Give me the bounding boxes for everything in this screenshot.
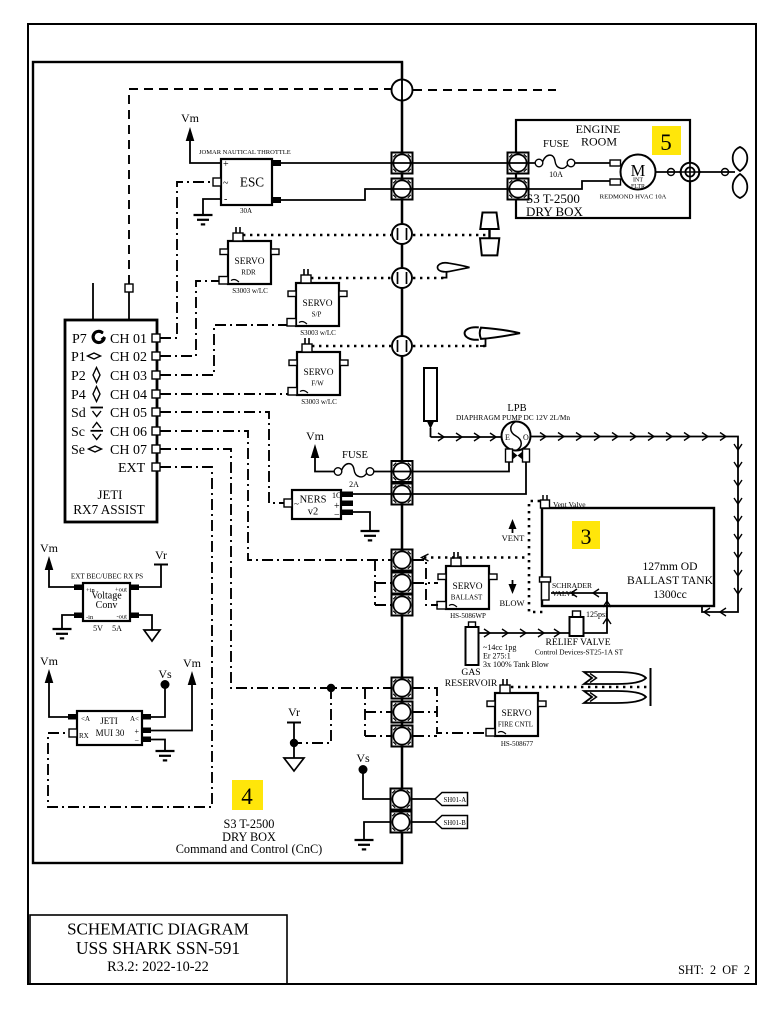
svg-text:-out: -out	[117, 614, 128, 621]
RX7 channel row CH05	[71, 406, 160, 421]
svg-text:+: +	[223, 159, 229, 170]
svg-text:−: −	[334, 510, 340, 521]
callout 3	[572, 521, 600, 549]
svg-text:2A: 2A	[349, 480, 359, 489]
wire ESC + output to motor fuse	[281, 162, 535, 164]
svg-text:JOMAR NAUTICAL THROTTLE: JOMAR NAUTICAL THROTTLE	[199, 149, 291, 156]
relief valve	[570, 610, 609, 636]
fairwater plane control surface symbol	[465, 327, 520, 346]
Vm power flag at voltage converter	[40, 541, 74, 587]
MUI - ground	[151, 740, 175, 761]
voltage converter output ground (chassis)	[139, 615, 160, 641]
svg-text:MUI 30: MUI 30	[96, 728, 125, 738]
svg-text:SCHEMATIC DIAGRAM: SCHEMATIC DIAGRAM	[67, 920, 249, 939]
vent valve	[541, 495, 587, 509]
svg-text:3: 3	[581, 524, 592, 549]
svg-text:NERS: NERS	[300, 495, 327, 506]
shaft gland (hull penetration)	[679, 161, 701, 183]
svg-text:CH 04: CH 04	[110, 388, 147, 403]
svg-text:JETI: JETI	[98, 488, 123, 502]
svg-text:30A: 30A	[240, 207, 252, 215]
svg-text:3x 100% Tank Blow: 3x 100% Tank Blow	[483, 660, 549, 669]
voltage converter rating label	[93, 624, 122, 633]
svg-text:E: E	[505, 433, 510, 442]
svg-text:127mm OD: 127mm OD	[642, 560, 697, 573]
svg-text:5: 5	[660, 130, 672, 155]
svg-text:CH 06: CH 06	[110, 425, 147, 440]
svg-text:FUSE: FUSE	[543, 139, 569, 150]
ESC ground	[194, 199, 222, 224]
wire CH07 to fire control connectors	[160, 449, 391, 688]
rudder control surface symbol	[480, 213, 499, 256]
svg-text:5A: 5A	[112, 624, 122, 633]
svg-text:Se: Se	[71, 443, 85, 458]
Vm power flag at MUI A	[40, 654, 68, 717]
svg-text:CH 03: CH 03	[110, 369, 147, 384]
net flag SH01-B	[412, 816, 468, 829]
wire CH02 to servo RDR	[160, 281, 219, 356]
svg-text:S3 T-2500: S3 T-2500	[224, 817, 275, 831]
ballast connector strap wires	[375, 560, 438, 605]
Vm power flag at ESC	[181, 111, 221, 163]
VENT flow label	[502, 519, 525, 543]
svg-text:+in: +in	[86, 587, 95, 594]
svg-text:S/P: S/P	[312, 311, 322, 319]
svg-text:P1: P1	[71, 350, 86, 365]
wire CH04 to servo F/W	[160, 393, 288, 395]
svg-text:DRY BOX: DRY BOX	[526, 204, 584, 219]
svg-text:−: −	[134, 736, 139, 745]
svg-text:RELIEF VALVE: RELIEF VALVE	[545, 637, 610, 648]
svg-text:BALLAST TANK: BALLAST TANK	[627, 574, 714, 587]
Vm power flag at pump fuse	[306, 429, 334, 472]
svg-text:Vs: Vs	[356, 751, 370, 765]
gas reservoir labels	[445, 643, 549, 689]
svg-text:CH 07: CH 07	[110, 443, 147, 458]
hull centre bulkhead line (right wall of CnC box)	[401, 62, 403, 863]
BLOW flow label	[499, 580, 524, 608]
svg-text:Vm: Vm	[40, 654, 59, 668]
svg-text:~: ~	[223, 178, 229, 189]
svg-text:10A: 10A	[549, 170, 563, 179]
svg-text:v2: v2	[308, 507, 319, 518]
fairwater plane linkage feedthrough circle	[392, 336, 412, 356]
svg-text:Command and Control (CnC): Command and Control (CnC)	[176, 842, 323, 856]
svg-text:-: -	[224, 194, 227, 205]
svg-text:SHT: 2 OF 2: SHT: 2 OF 2	[678, 963, 750, 977]
svg-text:F/W: F/W	[311, 380, 324, 388]
svg-text:ESC: ESC	[240, 175, 264, 190]
svg-text:RX7 ASSIST: RX7 ASSIST	[73, 502, 144, 517]
svg-text:O: O	[523, 433, 529, 442]
svg-text:FUSE: FUSE	[342, 450, 368, 461]
svg-text:S3003 w/LC: S3003 w/LC	[301, 398, 337, 406]
relief valve labels	[535, 637, 624, 657]
Vr output flag at voltage converter	[139, 548, 168, 587]
NERS v2 unit	[284, 490, 353, 521]
engine room dry box outline	[516, 120, 690, 218]
svg-text:Vent Valve: Vent Valve	[553, 500, 586, 509]
svg-text:Vm: Vm	[306, 429, 325, 443]
RX7 channel row CH07	[71, 443, 160, 458]
svg-text:Vm: Vm	[183, 656, 202, 670]
voltage converter input ground	[53, 615, 75, 638]
wire NERS output to pump - terminal	[353, 462, 526, 494]
hull connector squares, fire control servo (triple)	[392, 678, 413, 747]
rudder linkage feedthrough circle	[392, 224, 412, 244]
shaft wire to propeller	[699, 169, 735, 176]
svg-text:SH01-A: SH01-A	[444, 797, 467, 804]
torpedo linkage dotted line	[511, 686, 650, 689]
wire ESC - output to motor	[281, 181, 610, 200]
svg-text:BALLAST: BALLAST	[451, 594, 483, 602]
fuse F2 2A	[334, 450, 374, 489]
svg-text:5V: 5V	[93, 624, 103, 633]
svg-text:CH 05: CH 05	[110, 406, 147, 421]
svg-text:125psi: 125psi	[586, 610, 608, 619]
NERS ground	[353, 512, 380, 540]
servo BALLAST	[437, 552, 497, 609]
svg-text:S3003 w/LC: S3003 w/LC	[300, 329, 336, 337]
svg-text:VENT: VENT	[502, 533, 525, 543]
air intake snorkel	[424, 368, 437, 437]
RX7 channel row CH06	[71, 423, 160, 441]
svg-text:Sd: Sd	[71, 406, 86, 421]
svg-text:JETI: JETI	[100, 716, 118, 726]
svg-text:SERVO: SERVO	[304, 368, 334, 378]
svg-text:SERVO: SERVO	[502, 709, 532, 719]
svg-text:SERVO: SERVO	[453, 582, 483, 592]
servo F/W (fairwater planes)	[288, 338, 348, 395]
CnC dry box labels	[176, 817, 323, 856]
svg-text:SH01-B: SH01-B	[444, 820, 467, 827]
S3 T-2500 CnC dry box outline	[33, 62, 402, 863]
svg-text:S3003 w/LC: S3003 w/LC	[232, 287, 268, 295]
svg-text:ROOM: ROOM	[581, 135, 617, 149]
svg-text:SERVO: SERVO	[303, 299, 333, 309]
wire fuse to pump + terminal	[374, 462, 509, 472]
engine room labels	[526, 122, 620, 219]
ballast tank	[542, 508, 714, 606]
antenna dashed routing wire	[129, 89, 556, 284]
callout 4	[232, 780, 263, 810]
fire control connector strap wires	[365, 688, 486, 736]
svg-text:RESERVOIR: RESERVOIR	[445, 678, 498, 689]
propeller	[733, 147, 748, 198]
svg-text:Conv: Conv	[96, 600, 118, 611]
svg-text:Sc: Sc	[71, 425, 85, 440]
svg-text:FLTR: FLTR	[631, 184, 645, 190]
servo S/P (stern planes)	[287, 269, 347, 326]
svg-text:GAS: GAS	[461, 667, 480, 678]
RX7 channel row EXT	[118, 461, 160, 476]
pump terminals and check valve	[506, 449, 530, 462]
hull connector squares, pump feed (middle pair)	[392, 461, 413, 505]
svg-text:A<: A<	[130, 715, 139, 723]
junction dot CH07/Vr	[327, 684, 335, 692]
svg-text:4: 4	[241, 784, 253, 809]
svg-text:+: +	[134, 727, 139, 736]
servo RDR (rudder)	[219, 227, 279, 284]
title block	[30, 915, 287, 984]
JETI RX7 ASSIST receiver	[65, 320, 157, 522]
svg-text:<A: <A	[81, 715, 90, 723]
svg-text:R3.2: 2022-10-22: R3.2: 2022-10-22	[107, 959, 209, 975]
svg-text:P2: P2	[71, 369, 86, 384]
motor shaft wire to gland	[656, 169, 682, 176]
air line pump to ballast tank	[531, 433, 743, 617]
SH01 ground	[355, 822, 392, 849]
antenna feedthrough circle	[392, 80, 413, 101]
antenna pin on RX7	[125, 284, 133, 320]
wire CH01 to ESC	[160, 182, 213, 338]
fairwater plane linkage dotted line	[312, 345, 486, 348]
RX7 channel row CH02	[71, 350, 160, 365]
stern plane linkage feedthrough circle	[392, 268, 412, 288]
RX7 channel row CH04	[71, 387, 160, 404]
ballast servo linkage dotted line	[422, 554, 530, 561]
Vr power tap at fire control	[284, 688, 331, 771]
svg-text:FIRE CNTL: FIRE CNTL	[498, 721, 533, 729]
second antenna stub	[92, 283, 94, 320]
torpedo B	[584, 691, 646, 703]
net flag SH01-A	[412, 793, 468, 806]
svg-text:HS-508677: HS-508677	[501, 740, 534, 748]
Vm power flag at MUI +	[151, 656, 202, 731]
svg-text:Vm: Vm	[181, 111, 200, 125]
svg-text:RDR: RDR	[241, 269, 256, 277]
svg-text:BLOW: BLOW	[499, 598, 524, 608]
svg-text:EXT: EXT	[118, 461, 146, 476]
svg-text:USS SHARK SSN-591: USS SHARK SSN-591	[76, 938, 240, 958]
hull connector squares, ballast servo (triple)	[392, 550, 413, 616]
svg-text:REDMOND HVAC 10A: REDMOND HVAC 10A	[600, 194, 667, 201]
air line relief valve to schrader	[551, 589, 611, 633]
schrader valve	[540, 577, 593, 600]
svg-text:P4: P4	[71, 388, 86, 403]
svg-text:1300cc: 1300cc	[653, 588, 686, 601]
hull connector squares, SH01 pair	[391, 789, 412, 833]
Vs source dot at MUI	[151, 667, 172, 717]
svg-text:Vr: Vr	[288, 705, 300, 719]
svg-text:1O: 1O	[332, 491, 342, 500]
air line reservoir to relief valve	[479, 629, 570, 637]
svg-text:+out: +out	[115, 587, 127, 594]
callout 5	[652, 126, 681, 155]
stern plane control surface symbol	[438, 263, 470, 278]
RX7 channel row CH01	[72, 331, 160, 347]
engine room wall connector squares	[508, 153, 529, 200]
fuse F1 10A	[535, 139, 610, 179]
svg-text:~: ~	[294, 499, 299, 509]
gas reservoir	[466, 622, 479, 665]
svg-text:CH 01: CH 01	[110, 332, 147, 347]
svg-text:Vr: Vr	[155, 548, 167, 562]
svg-text:-in: -in	[86, 614, 94, 621]
rudder linkage dotted line	[243, 234, 487, 237]
servo FIRE CNTL	[486, 679, 546, 736]
svg-text:P7: P7	[72, 332, 87, 347]
stern plane linkage dotted line	[311, 277, 444, 280]
svg-text:SERVO: SERVO	[235, 257, 265, 267]
svg-text:CH 02: CH 02	[110, 350, 147, 365]
torpedo tube muzzle line	[650, 668, 652, 706]
svg-text:INT: INT	[633, 178, 643, 184]
svg-text:Control Devices-ST25-1A ST: Control Devices-ST25-1A ST	[535, 648, 624, 657]
wire CH06 to ballast servo connectors	[160, 431, 391, 560]
svg-text:HS-5086WP: HS-5086WP	[450, 612, 486, 620]
air line snorkel to pump	[431, 433, 503, 441]
torpedo A	[584, 672, 646, 684]
wire EXT to MUI30 RX	[48, 467, 212, 807]
svg-text:Vm: Vm	[40, 541, 59, 555]
motor M1	[610, 155, 656, 191]
svg-text:DIAPHRAGM PUMP DC 12V 2L/Mn: DIAPHRAGM PUMP DC 12V 2L/Mn	[456, 413, 570, 422]
wire CH05 to NERS	[160, 412, 284, 503]
Vs power tap at SH01	[356, 751, 391, 799]
ESC speed controller U-ESC	[213, 159, 281, 205]
svg-text:Vs: Vs	[158, 667, 172, 681]
LPB diaphragm pump	[456, 403, 570, 451]
svg-text:EXT BEC/UBEC RX PS: EXT BEC/UBEC RX PS	[71, 573, 143, 581]
svg-text:RX: RX	[79, 732, 89, 740]
voltage converter (EXT BEC/UBEC RX PS)	[71, 573, 143, 622]
RX7 channel row CH03	[71, 368, 160, 385]
vent/blow dotted pneumatic control path	[529, 501, 545, 612]
hull connector squares, ESC feed (upper pair)	[392, 153, 413, 200]
wire CH03 to servo S/P	[160, 325, 287, 375]
JETI MUI 30 sensor	[68, 711, 151, 745]
